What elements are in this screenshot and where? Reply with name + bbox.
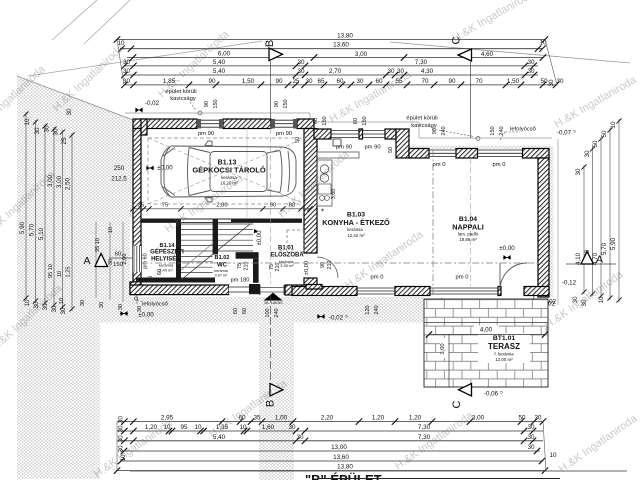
svg-text:A: A [596,254,603,266]
svg-text:±0,00: ±0,00 [499,245,515,252]
svg-text:-0,07: -0,07 [557,130,572,137]
svg-text:240: 240 [499,126,505,135]
svg-text:C: C [451,400,463,408]
svg-text:-0,06: -0,06 [484,391,499,398]
svg-text:KONYHA - ÉTKEZŐ: KONYHA - ÉTKEZŐ [322,218,390,227]
svg-text:30: 30 [534,415,542,422]
svg-text:1,50: 1,50 [507,78,520,85]
svg-text:60: 60 [353,118,359,124]
svg-text:5,40: 5,40 [213,59,226,66]
svg-text:60: 60 [313,118,319,124]
svg-text:90: 90 [208,78,216,85]
svg-text:30: 30 [356,78,364,85]
svg-text:5,10: 5,10 [38,227,45,240]
svg-text:30: 30 [123,68,131,75]
svg-text:50: 50 [518,415,526,422]
svg-text:10: 10 [108,227,114,233]
svg-text:5,90: 5,90 [610,237,617,250]
svg-text:150: 150 [113,262,123,268]
svg-text:100: 100 [265,308,271,317]
svg-text:150: 150 [213,99,219,108]
svg-text:ELŐSZOBA: ELŐSZOBA [270,252,304,259]
svg-text:240: 240 [441,126,447,135]
svg-text:30: 30 [527,424,535,431]
svg-text:pm 0: pm 0 [433,162,446,168]
svg-text:212,5: 212,5 [111,176,127,183]
svg-text:50: 50 [592,140,599,148]
svg-text:10: 10 [57,271,63,277]
svg-text:95 10: 95 10 [48,264,54,278]
svg-text:90: 90 [204,101,210,107]
svg-text:GÉPÉSZETI: GÉPÉSZETI [150,248,184,256]
svg-text:10: 10 [598,296,605,304]
svg-text:30: 30 [118,425,125,433]
svg-text:BT1.01: BT1.01 [493,335,516,342]
svg-text:1,20: 1,20 [372,415,385,422]
svg-text:30: 30 [548,79,555,87]
svg-text:30: 30 [527,68,535,75]
svg-text:2,70: 2,70 [329,68,342,75]
svg-text:30: 30 [80,300,86,306]
svg-text:30: 30 [387,68,395,75]
svg-text:75: 75 [237,263,243,269]
svg-text:3,00: 3,00 [440,343,446,354]
svg-text:±0,00: ±0,00 [257,230,263,246]
svg-text:10: 10 [239,424,247,431]
svg-text:30: 30 [118,416,125,424]
svg-text:1,60: 1,60 [262,424,275,431]
svg-text:10: 10 [194,424,202,431]
svg-text:7,30: 7,30 [415,59,428,66]
svg-text:30: 30 [584,150,591,158]
svg-text:13,80: 13,80 [337,464,353,471]
svg-text:150: 150 [490,126,496,135]
svg-text:7,30: 7,30 [418,424,431,431]
svg-text:*: * [321,208,324,217]
svg-text:35: 35 [253,415,261,422]
svg-text:pm 90: pm 90 [276,131,292,137]
svg-text:10: 10 [549,452,557,459]
svg-text:10: 10 [59,298,65,304]
svg-text:70: 70 [475,78,483,85]
svg-text:50: 50 [295,137,301,143]
svg-text:pm 90: pm 90 [364,145,380,151]
svg-text:B1. LAKÁS: B1. LAKÁS [265,301,284,305]
svg-text:150: 150 [283,99,289,108]
svg-text:3,00: 3,00 [355,51,368,58]
svg-text:30: 30 [66,108,73,116]
svg-text:30: 30 [123,59,131,66]
svg-text:75: 75 [162,202,168,208]
svg-text:pm 0: pm 0 [493,162,506,168]
svg-text:90: 90 [274,101,280,107]
svg-text:18,86 m²: 18,86 m² [459,237,477,242]
svg-text:30: 30 [118,435,125,443]
svg-text:10: 10 [610,121,617,129]
svg-text:65: 65 [317,78,325,85]
svg-text:1,50: 1,50 [242,78,255,85]
svg-text:30: 30 [305,78,313,85]
svg-text:kerámia: kerámia [347,227,363,232]
svg-text:B1.01: B1.01 [278,246,295,252]
svg-text:13,00: 13,00 [331,444,347,451]
svg-text:120: 120 [365,305,371,314]
svg-text:lefolyócső: lefolyócső [510,127,536,133]
svg-text:2,80: 2,80 [216,202,227,208]
svg-text:30: 30 [527,444,535,451]
svg-text:30: 30 [51,305,58,313]
svg-text:30: 30 [575,168,582,176]
svg-text:30: 30 [296,434,304,441]
svg-text:6,00: 6,00 [218,51,231,58]
svg-text:60: 60 [242,308,248,314]
svg-text:30: 30 [118,304,124,310]
svg-text:HELYISÉG: HELYISÉG [151,255,181,263]
svg-text:30: 30 [60,307,67,315]
svg-text:150: 150 [362,116,368,125]
svg-text:250: 250 [114,165,125,172]
svg-text:A: A [83,255,90,267]
svg-text:4,00: 4,00 [480,327,493,334]
svg-text:13,80: 13,80 [337,33,353,40]
svg-text:NAPPALI: NAPPALI [452,223,484,232]
svg-text:-0,12: -0,12 [562,280,577,287]
svg-text:1,20: 1,20 [409,415,422,422]
svg-text:2,40 m²: 2,40 m² [159,268,173,273]
svg-text:60: 60 [115,252,121,258]
svg-text:30: 30 [34,127,41,135]
svg-text:30: 30 [99,302,105,308]
svg-text:10: 10 [24,118,31,126]
svg-text:kerámia: kerámia [214,269,228,273]
svg-text:90: 90 [432,128,438,134]
svg-text:pm 90: pm 90 [198,131,214,137]
svg-text:150: 150 [322,116,328,125]
svg-text:4,30: 4,30 [421,68,434,75]
svg-text:30: 30 [53,128,60,136]
svg-text:4,60: 4,60 [481,51,494,58]
svg-text:30: 30 [288,424,296,431]
svg-text:pm 0: pm 0 [456,275,469,281]
svg-text:WC: WC [217,263,228,269]
svg-text:3,60: 3,60 [331,189,337,200]
svg-text:12,42 m²: 12,42 m² [347,233,365,238]
svg-text:3,30 m²: 3,30 m² [280,263,294,268]
svg-text:1,25: 1,25 [66,267,72,278]
svg-text:f. kerámia: f. kerámia [494,352,514,357]
svg-text:5,40: 5,40 [213,68,226,75]
svg-text:50: 50 [540,78,548,85]
svg-text:kavicságy: kavicságy [170,96,196,102]
svg-text:13,60: 13,60 [333,454,349,461]
svg-text:13,60: 13,60 [333,42,349,49]
svg-text:B1.14: B1.14 [160,243,176,249]
svg-text:12,00 m²: 12,00 m² [495,357,513,362]
svg-text:2,00: 2,00 [122,254,128,265]
svg-text:60: 60 [233,308,239,314]
svg-text:pm 60: pm 60 [143,253,149,269]
svg-text:25: 25 [61,137,68,145]
svg-text:30: 30 [527,59,535,66]
svg-text:30: 30 [44,125,51,133]
svg-text:35: 35 [138,202,144,208]
svg-text:-0,02: -0,02 [145,100,160,107]
svg-text:30: 30 [297,59,305,66]
svg-text:30: 30 [297,68,305,75]
svg-text:5,70: 5,70 [29,223,36,236]
svg-text:95: 95 [180,424,188,431]
svg-text:30: 30 [527,434,535,441]
svg-text:240: 240 [374,305,380,314]
svg-text:B: B [264,40,276,47]
svg-text:210: 210 [327,261,333,270]
svg-text:90: 90 [275,78,283,85]
svg-text:-0,02: -0,02 [329,315,344,322]
svg-text:0,97 m²: 0,97 m² [215,274,229,278]
svg-text:50: 50 [601,130,608,138]
svg-text:50: 50 [388,147,394,153]
svg-text:240: 240 [274,308,280,317]
svg-text:±0,00: ±0,00 [157,165,173,172]
svg-text:5,90: 5,90 [19,221,26,234]
svg-text:épület körüli: épület körüli [406,116,437,122]
svg-text:210: 210 [275,263,281,272]
svg-text:lam. padló: lam. padló [458,232,479,237]
svg-text:lefolyócső: lefolyócső [142,302,168,308]
svg-text:90: 90 [448,78,456,85]
svg-text:B1.02: B1.02 [215,255,230,261]
svg-text:TERASZ: TERASZ [488,342,520,351]
svg-text:1,00: 1,00 [275,415,288,422]
svg-text:2,50: 2,50 [65,177,72,190]
svg-text:30: 30 [556,78,564,85]
svg-text:70: 70 [421,78,429,85]
svg-text:2,20: 2,20 [321,415,334,422]
svg-text:25: 25 [292,78,300,85]
svg-text:pm 180: pm 180 [231,278,250,284]
svg-text:60: 60 [336,78,344,85]
svg-text:10: 10 [24,299,31,307]
svg-text:95 10: 95 10 [95,238,101,252]
svg-text:±0,00: ±0,00 [138,312,154,319]
